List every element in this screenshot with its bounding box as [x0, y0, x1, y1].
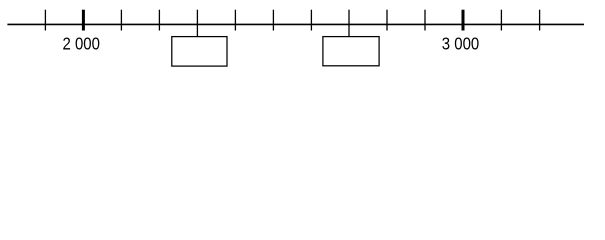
svg-text:2 000: 2 000	[63, 34, 101, 54]
svg-text:3 000: 3 000	[442, 34, 480, 54]
